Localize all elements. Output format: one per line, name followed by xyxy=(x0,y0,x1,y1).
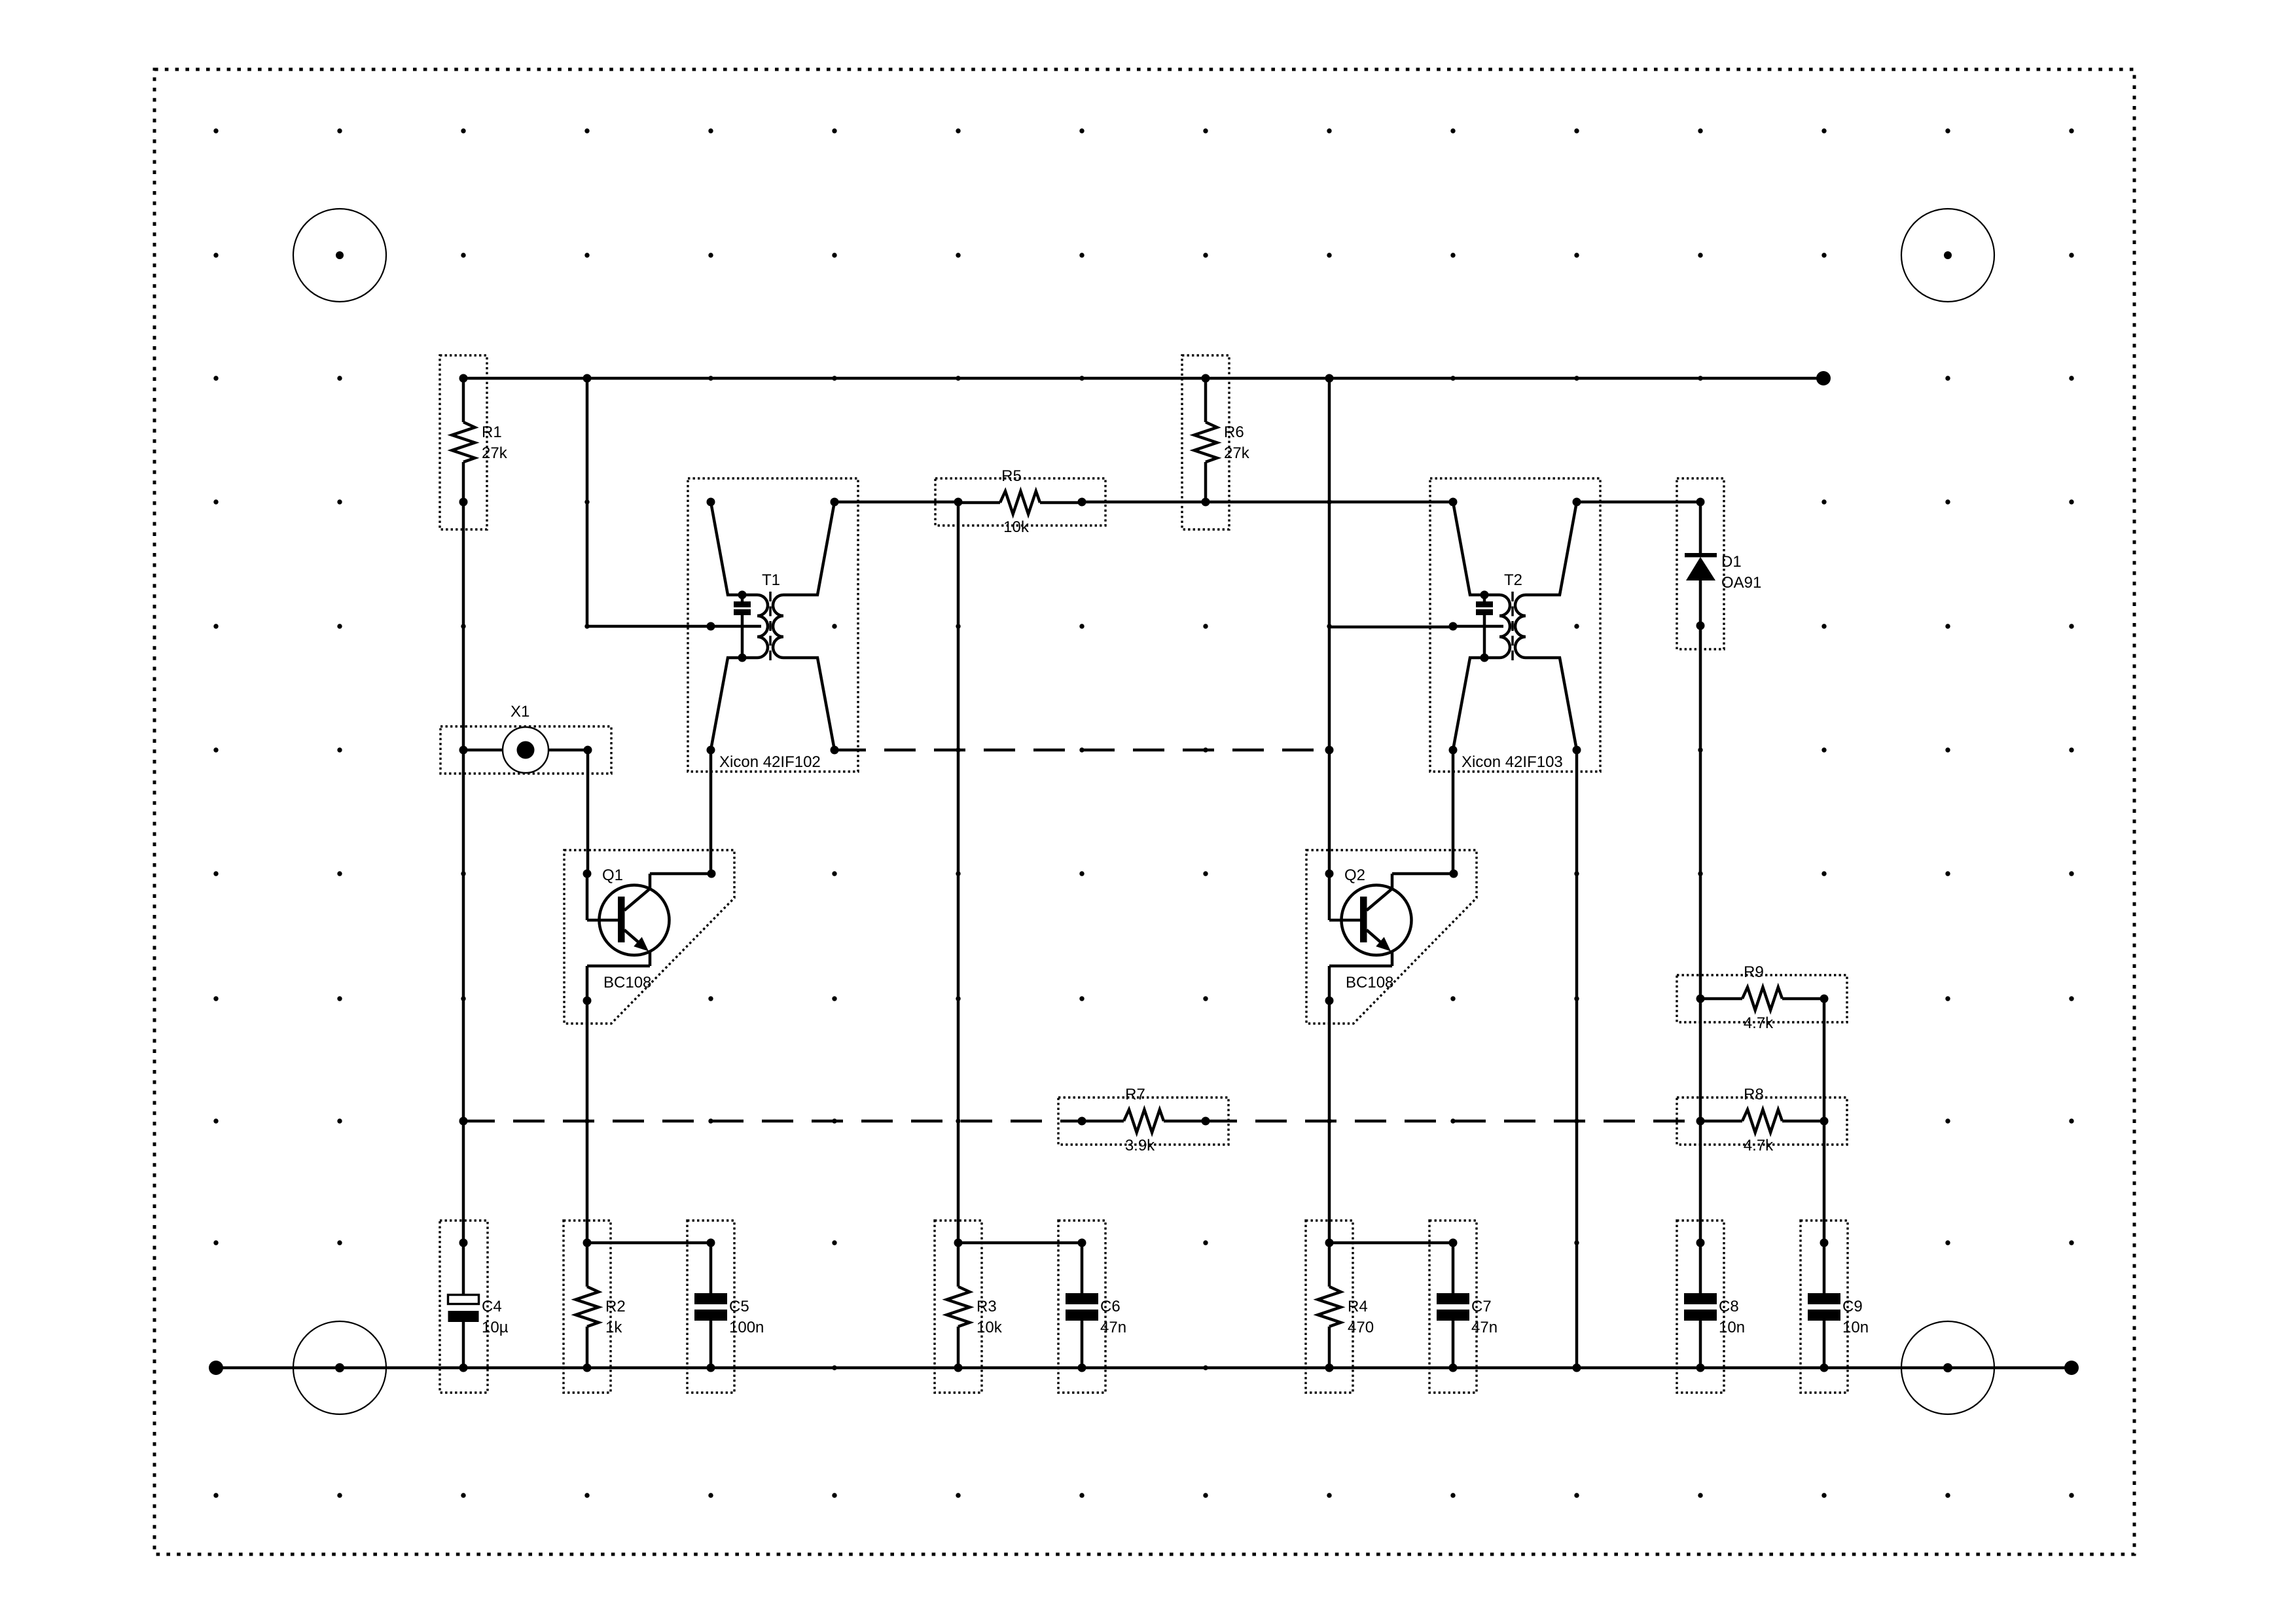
svg-text:R1: R1 xyxy=(482,423,502,441)
svg-text:R9: R9 xyxy=(1744,963,1764,981)
svg-text:Q2: Q2 xyxy=(1344,866,1365,884)
svg-text:Xicon 42IF103: Xicon 42IF103 xyxy=(1462,753,1563,771)
svg-text:R3: R3 xyxy=(977,1298,997,1315)
svg-text:470: 470 xyxy=(1348,1319,1374,1336)
svg-text:Q1: Q1 xyxy=(602,866,623,884)
svg-text:T1: T1 xyxy=(762,571,780,589)
svg-text:BC108: BC108 xyxy=(1346,974,1393,991)
svg-text:27k: 27k xyxy=(482,444,508,462)
svg-text:10k: 10k xyxy=(1003,518,1030,536)
svg-text:C5: C5 xyxy=(729,1298,749,1315)
svg-text:T2: T2 xyxy=(1504,571,1522,589)
svg-text:C8: C8 xyxy=(1719,1298,1739,1315)
svg-text:R6: R6 xyxy=(1224,423,1244,441)
svg-text:47n: 47n xyxy=(1471,1319,1498,1336)
svg-text:10µ: 10µ xyxy=(482,1319,509,1336)
svg-text:10n: 10n xyxy=(1719,1319,1745,1336)
svg-text:10n: 10n xyxy=(1842,1319,1869,1336)
svg-text:1k: 1k xyxy=(605,1319,622,1336)
svg-text:R7: R7 xyxy=(1125,1086,1145,1103)
svg-text:C4: C4 xyxy=(482,1298,502,1315)
svg-text:10k: 10k xyxy=(977,1319,1003,1336)
svg-text:47n: 47n xyxy=(1100,1319,1126,1336)
svg-text:R4: R4 xyxy=(1348,1298,1368,1315)
svg-text:C7: C7 xyxy=(1471,1298,1492,1315)
svg-text:C6: C6 xyxy=(1100,1298,1121,1315)
svg-text:Xicon 42IF102: Xicon 42IF102 xyxy=(719,753,821,771)
svg-text:R8: R8 xyxy=(1744,1086,1764,1103)
svg-text:R2: R2 xyxy=(605,1298,626,1315)
svg-text:27k: 27k xyxy=(1224,444,1250,462)
svg-text:R5: R5 xyxy=(1001,467,1022,485)
svg-text:BC108: BC108 xyxy=(603,974,651,991)
svg-text:X1: X1 xyxy=(511,703,529,721)
svg-text:C9: C9 xyxy=(1842,1298,1863,1315)
svg-text:OA91: OA91 xyxy=(1721,574,1761,592)
